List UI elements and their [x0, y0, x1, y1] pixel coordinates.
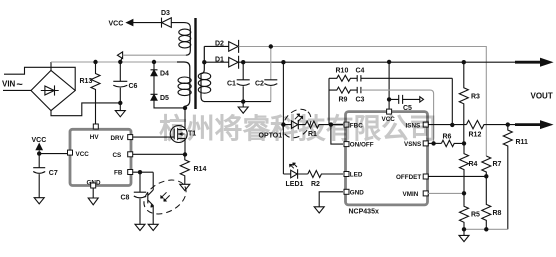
wire VMIN line (gray): [428, 192, 464, 194]
svg-text:HV: HV: [90, 134, 100, 141]
svg-text:C2: C2: [255, 81, 264, 88]
wire VCC to pin: [39, 153, 67, 155]
svg-text:C3: C3: [356, 97, 365, 104]
svg-text:DRV: DRV: [111, 135, 125, 142]
wire D2 output (gray): [239, 47, 487, 157]
svg-text:NCP435x: NCP435x: [349, 209, 379, 216]
svg-text:D3: D3: [161, 10, 170, 17]
svg-text:VOUT: VOUT: [531, 92, 553, 101]
ground below C6: [115, 103, 125, 117]
light arrows from opto LED: [295, 115, 302, 121]
svg-text:VCC: VCC: [109, 21, 124, 28]
svg-text:R4: R4: [469, 161, 478, 168]
opto phototransistor Q1: [148, 172, 153, 210]
light arrows into phototransistor: [162, 192, 170, 200]
svg-text:LED1: LED1: [286, 181, 304, 188]
wire ISNS line: [428, 124, 466, 126]
wire VCC to D3: [133, 22, 162, 24]
svg-text:C7: C7: [49, 170, 58, 177]
svg-text:GND: GND: [350, 189, 364, 196]
svg-text:D4: D4: [160, 71, 169, 78]
ground below NCP GND: [314, 207, 324, 213]
wire D1 output to VOUT: [239, 61, 515, 63]
controller IC U2 box: [70, 129, 131, 185]
wire compensation to FBC: [329, 78, 343, 124]
wire OFFDET line: [428, 175, 486, 177]
svg-text:C8: C8: [121, 195, 130, 202]
ground below R14: [180, 184, 190, 190]
svg-text:R12: R12: [469, 132, 482, 139]
wire VSNS line: [428, 142, 441, 144]
wire VCC2 drop to opto/LED1: [282, 62, 284, 174]
wire D4 to D5: [153, 76, 155, 95]
wire bridge DC- return: [51, 103, 120, 116]
wire D3 to aux winding: [171, 23, 190, 28]
wire VCC pin drop: [388, 62, 390, 109]
wire R10/C4 branch to ISNS line: [451, 78, 453, 125]
svg-text:C5: C5: [403, 105, 412, 112]
wire VIN bottom to bridge AC left: [3, 89, 31, 91]
svg-text:D1: D1: [215, 57, 224, 64]
transformer primary winding: [177, 62, 190, 108]
ground below GND pin: [88, 188, 98, 205]
IC NCP435x box: [346, 112, 428, 205]
wire VIN top to bridge AC right: [4, 67, 75, 90]
svg-text:R10: R10: [336, 68, 349, 75]
wire aux return (gray): [123, 54, 186, 56]
svg-text:D5: D5: [160, 95, 169, 102]
output arrow VOUT2: [515, 123, 541, 126]
wire secondary top to D2 line: [204, 45, 228, 47]
svg-text:VCC: VCC: [76, 151, 90, 158]
wire CS: [133, 153, 186, 155]
svg-text:C1: C1: [227, 81, 236, 88]
output arrow VOUT: [515, 61, 541, 64]
svg-text:VIN~: VIN~: [2, 79, 23, 91]
svg-text:D2: D2: [215, 41, 224, 48]
wire T1 drain: [184, 108, 186, 130]
transformer T aux winding: [186, 28, 191, 56]
light arrows from LED1: [290, 164, 297, 169]
wire FB node: [133, 172, 154, 192]
svg-text:R3: R3: [471, 94, 480, 101]
node arrow from aux winding return: [117, 52, 122, 62]
svg-text:C6: C6: [129, 83, 138, 90]
wire bottom rail (gray): [464, 228, 508, 230]
svg-text:R8: R8: [493, 210, 502, 217]
wire secondary bottom rail: [205, 101, 271, 103]
wire R9/C3 branch to VSNS (gray): [361, 90, 434, 143]
svg-text:R14: R14: [194, 166, 207, 173]
transformer secondary winding: [201, 46, 205, 101]
ground below opto emitter: [148, 210, 158, 231]
svg-text:R2: R2: [311, 181, 320, 188]
transformer core: [194, 18, 196, 109]
opto dashed ellipse (LED side): [277, 104, 316, 144]
wire rectified V+ rail: [51, 61, 177, 63]
svg-text:LED: LED: [350, 172, 363, 179]
wire DRV to gate: [133, 136, 175, 138]
ground below C1: [238, 102, 248, 114]
ground below C8: [135, 224, 145, 230]
svg-text:杭州将睿科技有限公司: 杭州将睿科技有限公司: [159, 112, 437, 144]
svg-text:CS: CS: [113, 152, 122, 159]
bridge rectifier: [31, 70, 75, 110]
svg-text:R7: R7: [493, 161, 502, 168]
wire T1 source to CS node: [184, 138, 186, 154]
ground below R5: [459, 229, 469, 241]
wire bridge DC+ to rail: [50, 62, 52, 70]
svg-text:R13: R13: [80, 78, 93, 85]
svg-text:OFFDET: OFFDET: [396, 174, 421, 181]
svg-text:R6: R6: [443, 134, 452, 141]
wire D1 line: [204, 61, 228, 63]
svg-text:R9: R9: [339, 97, 348, 104]
wire NCP GND to ground: [319, 192, 343, 207]
svg-text:R5: R5: [471, 212, 480, 219]
wire D5 to switch node: [154, 100, 185, 108]
svg-text:VCC: VCC: [32, 137, 47, 144]
opto dashed ellipse (transistor side): [138, 173, 192, 221]
wire FBC/ON-OFF tie: [331, 125, 343, 145]
svg-text:R11: R11: [516, 139, 529, 146]
svg-text:C4: C4: [356, 68, 365, 75]
svg-text:FB: FB: [114, 170, 123, 177]
ground below C7: [34, 198, 44, 204]
svg-text:VMIN: VMIN: [403, 191, 419, 198]
